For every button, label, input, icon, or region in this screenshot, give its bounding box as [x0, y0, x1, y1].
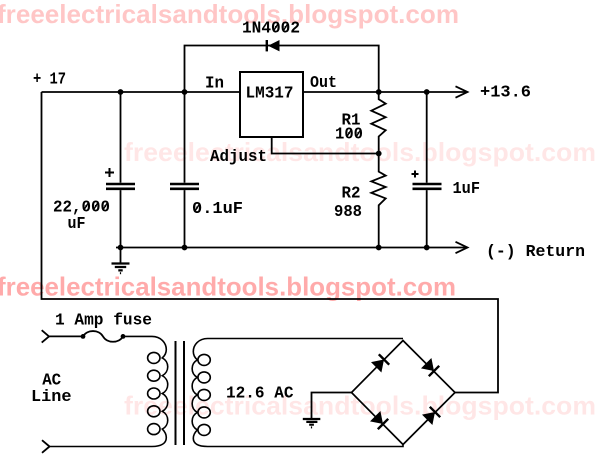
transformer T1 secondary winding — [192, 339, 403, 447]
AC line terminal top — [42, 330, 49, 342]
regulator U1 LM317 box — [240, 72, 303, 137]
transformer T1 core — [176, 341, 185, 445]
svg-text:freeelectricalsandtools.blogsp: freeelectricalsandtools.blogspot.com — [0, 0, 459, 29]
junction main rail at C1 — [118, 89, 124, 95]
junction adjust node R1 R2 — [376, 151, 382, 157]
svg-text:1N4002: 1N4002 — [242, 19, 300, 38]
wire bridge minus to ground — [312, 393, 352, 419]
output terminal arrow +13.6 — [456, 86, 468, 97]
junction return at C2 — [182, 245, 188, 251]
svg-text:(-) Return: (-) Return — [486, 242, 585, 261]
resistor R2 — [371, 154, 385, 248]
svg-text:LM317: LM317 — [246, 84, 294, 103]
svg-text:In: In — [205, 74, 224, 93]
label 22,000 uF — [53, 198, 110, 234]
return terminal arrow — [456, 242, 468, 253]
diode D2 top-left — [371, 354, 389, 372]
slashed zero marks — [84, 24, 361, 212]
AC line terminal bottom — [42, 440, 50, 453]
wire protection diode loop — [185, 46, 379, 93]
bridge rectifier diamond — [352, 341, 456, 445]
ground symbol G1 — [112, 248, 130, 274]
svg-text:uF: uF — [68, 214, 86, 233]
wire adjust pin — [272, 137, 379, 154]
wire AC top lead — [49, 335, 83, 337]
svg-text:Line: Line — [31, 387, 72, 406]
diode D3 top-right — [421, 358, 439, 376]
svg-text:freeelectricalsandtools.blogsp: freeelectricalsandtools.blogspot.com — [124, 391, 596, 421]
wire +17 rail from bridge output — [42, 92, 499, 393]
junction main rail at C2 — [182, 89, 188, 95]
wire input rail — [42, 91, 241, 93]
svg-text:Adjust: Adjust — [210, 147, 267, 166]
svg-text:1uF: 1uF — [453, 179, 481, 198]
svg-text:freeelectricalsandtools.blogsp: freeelectricalsandtools.blogspot.com — [0, 272, 456, 302]
svg-text:12.6 AC: 12.6 AC — [226, 384, 294, 403]
junction output at C3 — [424, 89, 430, 95]
svg-text:+ 17: + 17 — [33, 70, 66, 89]
label R2 988 — [334, 184, 362, 222]
fuse F1 — [83, 331, 123, 342]
diode D4 bottom-left — [370, 411, 388, 429]
junction fuse right — [121, 334, 126, 339]
junction output node — [376, 89, 382, 95]
node label AC Line — [31, 371, 72, 407]
svg-text:0.1uF: 0.1uF — [192, 199, 243, 218]
capacitor C2 0.1uF — [170, 92, 199, 248]
ground symbol G2 — [303, 419, 321, 427]
svg-text:988: 988 — [334, 202, 362, 221]
junction fuse left — [81, 334, 86, 339]
wire output rail — [303, 91, 467, 93]
wire return rail — [116, 247, 467, 249]
junction return at C1 — [118, 245, 124, 251]
svg-text:+13.6: +13.6 — [480, 83, 531, 102]
capacitor C3 1uF — [412, 92, 442, 248]
label R1 100 — [335, 111, 363, 144]
svg-text:Out: Out — [310, 73, 337, 92]
resistor R1 — [371, 92, 385, 154]
diode D5 bottom-right — [422, 407, 440, 425]
diode D1 1N4002 — [267, 40, 280, 51]
junction return at C3 — [424, 245, 430, 251]
capacitor C1 22,000uF — [105, 92, 135, 248]
transformer T1 primary winding — [50, 336, 168, 446]
junction return at R2 — [376, 245, 382, 251]
svg-text:R2: R2 — [342, 184, 361, 203]
svg-text:1 Amp fuse: 1 Amp fuse — [55, 311, 152, 330]
